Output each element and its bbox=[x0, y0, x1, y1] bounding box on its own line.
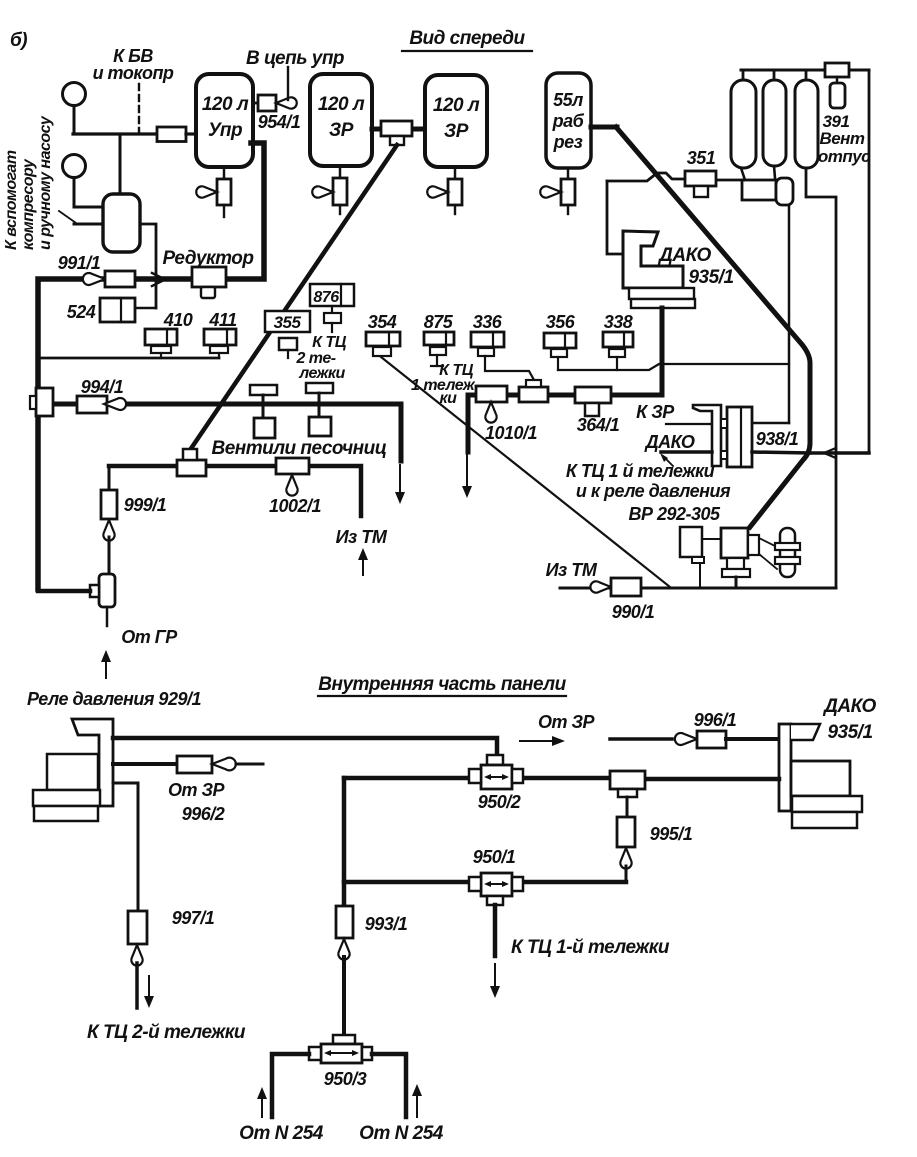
valve 994/1 bbox=[77, 396, 107, 413]
device ДАКО 935/1 (inner panel) bbox=[779, 724, 791, 811]
wire junction down to small tank bbox=[119, 134, 122, 196]
reservoir 120л ЗР (first) bbox=[310, 74, 372, 166]
check arrow on main line bbox=[152, 273, 165, 286]
pipe К ЗР right to riser bbox=[752, 422, 789, 425]
pipe left link y591 bbox=[38, 589, 90, 594]
svg-text:и к реле давления: и к реле давления bbox=[576, 481, 731, 501]
svg-text:К ТЦ: К ТЦ bbox=[312, 334, 347, 351]
valve 997/1 bbox=[128, 911, 147, 944]
svg-text:В цепь упр: В цепь упр bbox=[246, 48, 344, 69]
svg-text:От N 254: От N 254 bbox=[239, 1123, 324, 1144]
valve 996/2 bbox=[177, 756, 212, 773]
gauge circle 2 bbox=[63, 155, 86, 178]
device 938/1 bracket bbox=[693, 405, 721, 466]
svg-text:От ГР: От ГР bbox=[121, 627, 178, 647]
wire open pipe к насосу bbox=[74, 223, 103, 226]
svg-text:ДАКО: ДАКО bbox=[644, 432, 695, 452]
svg-text:995/1: 995/1 bbox=[650, 824, 693, 844]
svg-text:б): б) bbox=[10, 30, 27, 51]
wire filter to tank1 bbox=[186, 132, 197, 135]
label Реле давления 929/1 bbox=[27, 689, 201, 709]
pipe left riser x344 bbox=[342, 778, 347, 906]
leader arrow to ДАКО pipe bbox=[663, 456, 673, 466]
valve 351 bbox=[685, 171, 716, 186]
reducer Редуктор bbox=[192, 267, 226, 287]
svg-text:Упр: Упр bbox=[208, 120, 242, 141]
flow arrow left N254 bbox=[261, 1095, 263, 1117]
title Внутренняя часть панели bbox=[318, 674, 566, 695]
air cylinder capsule 2 bbox=[763, 80, 786, 166]
valve 950/2 bbox=[487, 755, 503, 765]
valve 993/1 bbox=[336, 906, 353, 938]
svg-text:411: 411 bbox=[208, 310, 237, 330]
leader line to open pipe bbox=[59, 211, 76, 223]
flow arrow x401 bbox=[399, 465, 401, 496]
pipe 356-338 line y364 bbox=[558, 364, 789, 370]
svg-text:ВР 292-305: ВР 292-305 bbox=[628, 504, 721, 524]
pipe К ТЦ 1 stem bbox=[493, 905, 498, 956]
device 938/1 plates bbox=[727, 407, 752, 467]
flow arrow От ГР bbox=[105, 658, 107, 678]
pipe 351 line with hop bbox=[607, 173, 685, 181]
svg-text:994/1: 994/1 bbox=[81, 377, 124, 397]
svg-text:Из ТМ: Из ТМ bbox=[336, 527, 388, 547]
svg-text:120 л: 120 л bbox=[433, 95, 480, 116]
flow arrow up x363 bbox=[362, 556, 364, 575]
svg-text:ДАКО: ДАКО bbox=[657, 245, 711, 266]
drain valve tank1 bbox=[223, 167, 226, 179]
svg-text:935/1: 935/1 bbox=[688, 267, 733, 288]
gauge 875 bbox=[424, 332, 454, 345]
svg-text:876: 876 bbox=[313, 289, 339, 306]
pipe из ТМ y588 bbox=[560, 587, 836, 590]
pipe riser x790 bbox=[788, 205, 791, 423]
svg-text:Редуктор: Редуктор bbox=[162, 248, 253, 269]
pipe riser x836 bbox=[835, 199, 838, 588]
svg-text:996/1: 996/1 bbox=[694, 710, 737, 730]
label От ЗР with arrow bbox=[538, 712, 596, 732]
svg-text:990/1: 990/1 bbox=[612, 602, 655, 622]
dashed line К БВ bbox=[138, 84, 140, 133]
sand valve 1 bbox=[250, 385, 277, 395]
valve 950/1 bbox=[481, 873, 512, 896]
svg-text:954/1: 954/1 bbox=[258, 112, 301, 132]
pipe capsule3 to x836 riser bbox=[806, 168, 836, 197]
pipe 996/2 line y764 bbox=[113, 762, 177, 766]
pipe 950/3 left branch bbox=[272, 1054, 309, 1117]
flow arrow right N254 bbox=[416, 1092, 418, 1117]
wire gauge1 stem bbox=[73, 106, 76, 134]
reservoir 120л Упр bbox=[196, 74, 253, 167]
pipe 950/2 line y778 bbox=[344, 776, 469, 781]
pipe to ДАКО 935/1 bbox=[607, 181, 623, 254]
check arrow on y453 bbox=[824, 448, 836, 458]
svg-text:996/2: 996/2 bbox=[182, 804, 225, 824]
svg-text:935/1: 935/1 bbox=[827, 722, 872, 743]
device ДАКО 935/1 (front) bbox=[623, 231, 683, 288]
pipe ДАКО stem down bbox=[660, 308, 665, 395]
small auxiliary tank bbox=[103, 194, 140, 252]
gauge circle 1 bbox=[63, 83, 86, 106]
pipe sand line y404 bbox=[53, 402, 401, 407]
fitting with tab (diagonal A lands) bbox=[177, 460, 206, 476]
pipe 997/1 branch bbox=[113, 783, 138, 911]
svg-text:и токопр: и токопр bbox=[93, 63, 174, 83]
svg-text:Вентили песочниц: Вентили песочниц bbox=[211, 438, 386, 459]
svg-text:356: 356 bbox=[546, 312, 576, 332]
svg-text:991/1: 991/1 bbox=[58, 253, 101, 273]
pipe top manifold bbox=[741, 69, 869, 72]
svg-text:Вид спереди: Вид спереди bbox=[409, 28, 525, 49]
wire pipe y134 bbox=[73, 132, 157, 135]
svg-text:938/1: 938/1 bbox=[756, 429, 799, 449]
svg-text:55л: 55л bbox=[553, 90, 583, 110]
union fitting right of 950/2 bbox=[610, 771, 645, 789]
pipe 929/1 top line y738 bbox=[113, 738, 497, 755]
svg-text:ДАКО: ДАКО bbox=[822, 696, 876, 717]
svg-text:1002/1: 1002/1 bbox=[269, 496, 322, 516]
air cylinder capsule 1 bbox=[731, 80, 756, 168]
svg-text:От N 254: От N 254 bbox=[359, 1123, 444, 1144]
gauge 356 bbox=[544, 333, 576, 348]
pipe 950/1 line y882 bbox=[344, 880, 626, 885]
reservoir 55л раб рез bbox=[546, 73, 591, 168]
valve 954/1 bbox=[253, 102, 258, 105]
pipe diagonal A bbox=[190, 145, 397, 450]
tee 364/1 bbox=[575, 387, 611, 403]
valve 950/3 bbox=[333, 1035, 355, 1044]
svg-text:К ТЦ 1-й тележки: К ТЦ 1-й тележки bbox=[511, 937, 670, 958]
union fitting bbox=[519, 387, 548, 402]
pipe right riser x869 bbox=[868, 70, 871, 453]
boxed label 355 bbox=[265, 311, 310, 332]
device реле давления 929/1 bbox=[72, 719, 113, 806]
svg-text:524: 524 bbox=[67, 302, 96, 322]
device ВР 292-305 bbox=[680, 527, 702, 557]
svg-text:950/1: 950/1 bbox=[473, 847, 516, 867]
valve 991/1 bbox=[83, 273, 105, 285]
pipe gauge manifold y358 bbox=[38, 357, 219, 360]
fitting on top manifold bbox=[825, 63, 849, 77]
gauge 411 bbox=[204, 329, 236, 345]
svg-text:Вент: Вент bbox=[819, 129, 864, 148]
svg-text:компресору: компресору bbox=[20, 158, 37, 250]
pipe 999/1 branch bbox=[108, 466, 111, 490]
label К вспомогат компресору и ручному насосу (vertical) bbox=[3, 115, 54, 250]
wire 524 connector bbox=[135, 307, 156, 310]
svg-text:354: 354 bbox=[368, 312, 397, 332]
pipe y395 line bbox=[468, 393, 662, 398]
svg-text:997/1: 997/1 bbox=[172, 908, 215, 928]
gauge 410 bbox=[145, 329, 177, 345]
flow arrow x468 bbox=[466, 455, 468, 490]
svg-text:120 л: 120 л bbox=[318, 94, 365, 115]
filter on pipe bbox=[157, 127, 186, 142]
valve 990/1 bbox=[590, 581, 611, 592]
pipe below fitting bbox=[106, 607, 109, 626]
svg-text:и ручному насосу: и ручному насосу bbox=[37, 115, 54, 250]
drain valve tank3 bbox=[454, 167, 457, 179]
svg-text:К ТЦ 1 й тележки: К ТЦ 1 й тележки bbox=[566, 461, 715, 481]
fitting От ГР bbox=[99, 574, 115, 607]
svg-text:ЗР: ЗР bbox=[444, 121, 469, 142]
wire small tank to main line and 524 bbox=[140, 224, 156, 308]
pipe main reducer line y279 bbox=[38, 143, 264, 589]
pipe thin diagonal D bbox=[381, 357, 670, 587]
svg-text:раб: раб bbox=[552, 111, 585, 131]
svg-text:рез: рез bbox=[553, 132, 583, 152]
svg-text:ЗР: ЗР bbox=[329, 120, 354, 141]
label Из ТМ left bbox=[336, 527, 388, 547]
svg-text:Из ТМ: Из ТМ bbox=[546, 560, 598, 580]
svg-text:От ЗР: От ЗР bbox=[538, 712, 596, 732]
svg-text:лежки: лежки bbox=[298, 365, 345, 382]
svg-text:Реле давления 929/1: Реле давления 929/1 bbox=[27, 689, 201, 709]
valve 995/1 bbox=[626, 797, 629, 817]
pipe ДАКО line left bbox=[661, 450, 712, 454]
valve 1002/1 bbox=[276, 458, 309, 474]
svg-text:410: 410 bbox=[163, 310, 193, 330]
svg-text:950/3: 950/3 bbox=[324, 1069, 367, 1089]
valve 996/1 bbox=[610, 737, 672, 741]
svg-text:отпус: отпус bbox=[818, 147, 871, 166]
svg-text:К ЗР: К ЗР bbox=[636, 402, 675, 422]
wire gauge2 to small tank bbox=[74, 178, 103, 207]
svg-text:От ЗР: От ЗР bbox=[168, 780, 226, 800]
svg-text:1010/1: 1010/1 bbox=[485, 423, 538, 443]
svg-text:К ТЦ 2-й тележки: К ТЦ 2-й тележки bbox=[87, 1022, 246, 1043]
svg-text:338: 338 bbox=[604, 312, 633, 332]
pipe drop x468 bbox=[466, 395, 471, 452]
title Вид спереди bbox=[409, 28, 525, 49]
gauge 338 bbox=[603, 332, 633, 347]
drain valve tank2 bbox=[339, 166, 342, 178]
pipe ДАКО line right bbox=[752, 452, 809, 453]
gauge 354 bbox=[366, 332, 400, 346]
device 524 bbox=[100, 298, 135, 322]
svg-text:Внутренняя часть панели: Внутренняя часть панели bbox=[318, 674, 566, 695]
svg-text:364/1: 364/1 bbox=[577, 415, 620, 435]
valve 1010/1 bbox=[476, 386, 507, 402]
gauge 336 bbox=[471, 332, 504, 347]
tee block left bbox=[36, 388, 53, 416]
label К ТЦ 1 тележки bbox=[411, 362, 479, 407]
drain valve tank4 bbox=[567, 168, 570, 179]
pipe sand drop x401 bbox=[399, 404, 404, 461]
manifold block under capsules bbox=[742, 180, 776, 200]
flow arrow К ТЦ 2 bbox=[148, 976, 150, 1000]
pipe y453 link bbox=[808, 451, 869, 455]
sand valve 2 bbox=[306, 383, 333, 393]
air cylinder capsule 3 bbox=[795, 80, 818, 168]
boxed label 876 bbox=[310, 284, 354, 306]
label К БВ и токопр bbox=[93, 46, 174, 83]
svg-text:355: 355 bbox=[274, 313, 302, 332]
svg-text:875: 875 bbox=[424, 312, 454, 332]
svg-text:999/1: 999/1 bbox=[124, 495, 167, 515]
svg-text:336: 336 bbox=[473, 312, 503, 332]
vent valve 391 bbox=[836, 77, 839, 83]
pipe К ЗР left bbox=[666, 423, 712, 425]
pipe 950/3 right branch bbox=[372, 1054, 406, 1117]
tee fitting between ЗР tanks bbox=[372, 127, 381, 132]
pipe diagonal B to ВР bbox=[616, 127, 810, 527]
svg-text:950/2: 950/2 bbox=[478, 792, 521, 812]
svg-text:351: 351 bbox=[687, 148, 716, 168]
pipe tank4 stub bbox=[591, 125, 617, 130]
svg-text:120 л: 120 л bbox=[202, 94, 249, 115]
svg-text:993/1: 993/1 bbox=[365, 914, 408, 934]
pipe 1002/1 line y466 bbox=[109, 466, 361, 516]
reservoir 120л ЗР (second) bbox=[425, 75, 487, 167]
svg-text:ки: ки bbox=[440, 390, 458, 407]
svg-text:К вспомогат: К вспомогат bbox=[3, 150, 20, 250]
